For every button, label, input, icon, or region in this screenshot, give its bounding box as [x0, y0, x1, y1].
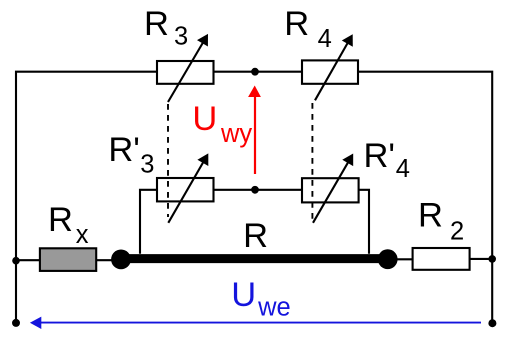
- svg-text:we: we: [257, 293, 291, 321]
- svg-text:4: 4: [396, 155, 410, 183]
- svg-text:3: 3: [140, 150, 154, 178]
- svg-text:R: R: [418, 196, 443, 234]
- svg-text:R: R: [284, 5, 309, 43]
- svg-text:2: 2: [450, 217, 464, 245]
- svg-text:U: U: [192, 100, 217, 138]
- svg-text:R: R: [144, 5, 169, 43]
- svg-text:R: R: [243, 217, 268, 255]
- svg-text:3: 3: [174, 23, 188, 51]
- svg-text:R': R': [108, 131, 140, 169]
- svg-text:R': R': [364, 137, 396, 175]
- svg-text:4: 4: [318, 25, 332, 53]
- svg-text:R: R: [48, 201, 73, 239]
- svg-text:wy: wy: [220, 120, 252, 148]
- svg-text:U: U: [231, 276, 256, 314]
- svg-text:x: x: [76, 221, 89, 249]
